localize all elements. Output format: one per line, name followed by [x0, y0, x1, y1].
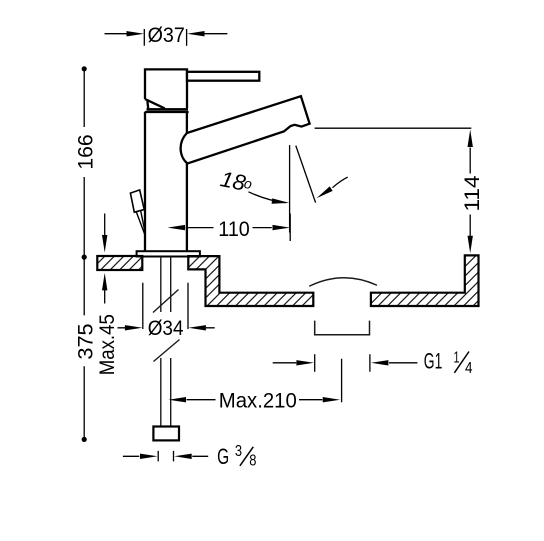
handle lever [187, 72, 259, 81]
dimension 114 [315, 128, 472, 236]
pipe end nut [153, 427, 179, 441]
dimension D37 [105, 29, 228, 46]
sink bottom bulge arc [309, 278, 377, 287]
dimension 375 [83, 260, 85, 438]
drain tailpiece bracket [315, 321, 370, 335]
faucet handle cap [145, 69, 187, 108]
sink bottom right and wall (hatched) [371, 255, 479, 306]
base flange [137, 251, 200, 256]
angle 18deg axis line [289, 145, 291, 232]
countertop right / sink step (hatched) [188, 256, 313, 306]
spout [181, 96, 310, 163]
faucet body [145, 112, 189, 252]
svg-text:Max.45: Max.45 [95, 314, 119, 375]
svg-text:114: 114 [460, 175, 484, 211]
svg-text:3: 3 [235, 443, 242, 460]
svg-text:Ø34: Ø34 [148, 316, 184, 340]
angle 18deg arc [249, 192, 286, 203]
angle leader arrow [333, 177, 348, 188]
dimension G1 1/4 [273, 354, 418, 372]
drain pull rod [136, 211, 145, 234]
svg-text:G1: G1 [424, 349, 443, 374]
pipe break mark lower [154, 340, 180, 362]
dimension D34 [118, 283, 215, 329]
svg-text:1: 1 [454, 350, 460, 367]
handle seam band [147, 108, 189, 111]
dimension Max.210 [187, 359, 342, 403]
drain pull rod knob [130, 190, 144, 212]
dimension Max.45 [104, 214, 106, 304]
angle 18deg tilted stream line [296, 146, 316, 203]
svg-text:166: 166 [74, 134, 98, 169]
pipe break mark upper [153, 290, 179, 313]
svg-text:4: 4 [465, 360, 473, 377]
svg-text:110: 110 [218, 217, 250, 241]
supply pipe upper [161, 257, 171, 313]
countertop left block (hatched) [97, 256, 142, 270]
dimension 166 [83, 71, 85, 255]
supply pipe lower [161, 358, 171, 427]
dimension 110 [186, 214, 291, 242]
dimension G 3/8 [123, 451, 208, 462]
svg-text:Ø37: Ø37 [148, 23, 185, 47]
svg-text:Max.210: Max.210 [219, 388, 297, 412]
svg-text:G: G [217, 444, 229, 469]
svg-text:8: 8 [249, 453, 256, 470]
